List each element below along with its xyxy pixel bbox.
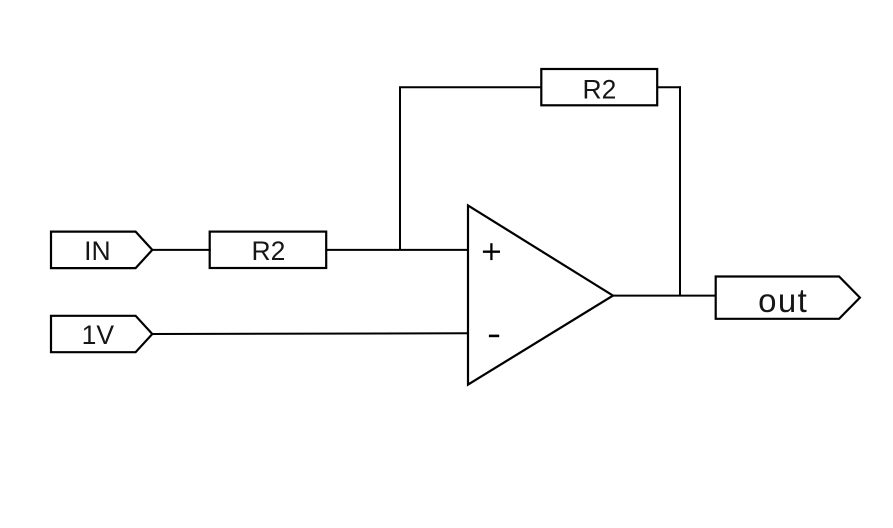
svg-text:R2: R2: [582, 74, 616, 104]
wire 1V to op-amp inverting input: [152, 332, 468, 335]
svg-text:IN: IN: [84, 236, 111, 266]
op-amp U1: [468, 206, 613, 385]
wire op-amp output to out flag: [613, 295, 716, 297]
wire feedback top right horizontal: [657, 86, 681, 88]
wire resistor R2 to op-amp noninverting input: [326, 249, 468, 251]
plus marking (noninverting input): [483, 251, 500, 253]
wire feedback right vertical to output: [679, 86, 681, 295]
output flag out: [716, 277, 860, 319]
resistor R2 (input, series): [210, 232, 327, 268]
wire feedback top left horizontal: [399, 86, 541, 88]
minus marking (inverting input): [489, 335, 499, 338]
wire feedback left vertical: [399, 87, 401, 250]
wire IN to resistor R2 (input): [152, 249, 210, 251]
input flag IN: [51, 232, 152, 269]
svg-text:out: out: [758, 282, 808, 319]
resistor R2 (feedback): [541, 69, 657, 105]
svg-text:R2: R2: [251, 236, 285, 266]
input flag 1V: [51, 316, 152, 352]
svg-text:1V: 1V: [82, 320, 115, 350]
